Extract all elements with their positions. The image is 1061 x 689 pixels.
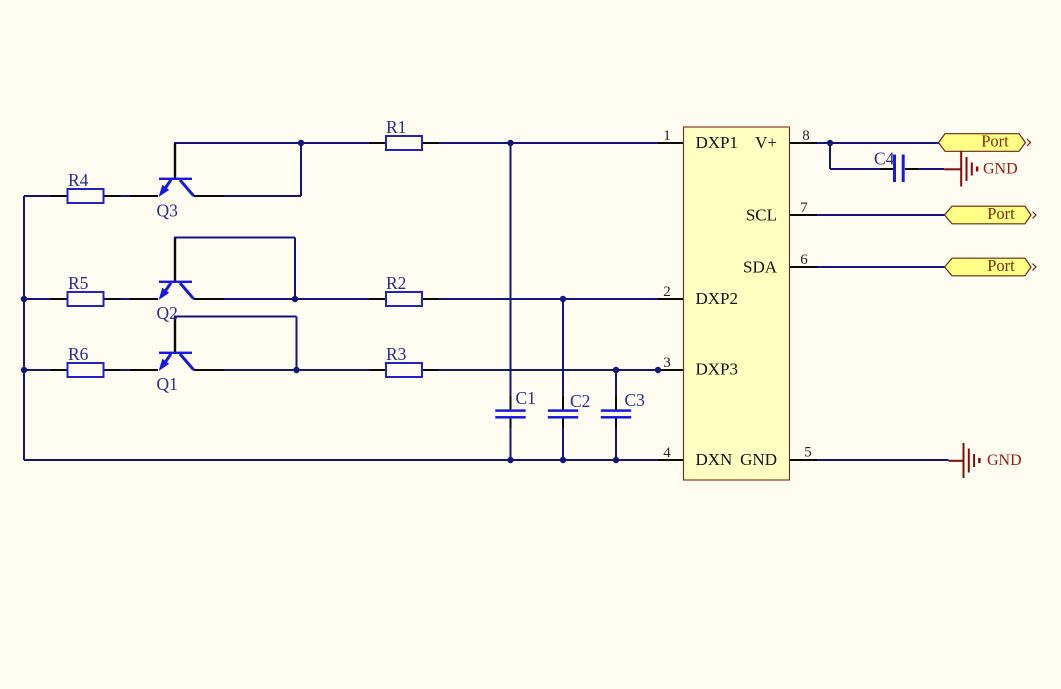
svg-text:R6: R6 — [68, 344, 89, 364]
svg-text:C2: C2 — [570, 391, 590, 411]
svg-text:Port: Port — [981, 132, 1009, 151]
svg-text:Port: Port — [987, 204, 1015, 223]
svg-text:GND: GND — [983, 161, 1018, 178]
svg-text:C3: C3 — [625, 390, 646, 410]
svg-text:DXP1: DXP1 — [696, 133, 739, 152]
svg-text:SCL: SCL — [746, 206, 777, 225]
svg-text:R5: R5 — [68, 273, 89, 293]
svg-text:7: 7 — [800, 200, 808, 216]
svg-text:Q2: Q2 — [157, 303, 178, 323]
svg-text:Q1: Q1 — [157, 374, 178, 394]
svg-text:C4: C4 — [874, 149, 895, 169]
svg-text:GND: GND — [740, 450, 777, 469]
svg-text:DXP3: DXP3 — [696, 360, 739, 379]
svg-text:3: 3 — [663, 355, 671, 371]
svg-text:R2: R2 — [386, 273, 406, 293]
svg-text:DXP2: DXP2 — [696, 289, 739, 308]
svg-text:SDA: SDA — [743, 258, 778, 277]
svg-text:8: 8 — [802, 128, 810, 144]
svg-text:Port: Port — [987, 256, 1015, 275]
svg-text:6: 6 — [800, 252, 808, 268]
svg-text:GND: GND — [987, 452, 1022, 469]
svg-text:C1: C1 — [516, 388, 536, 408]
svg-text:Q3: Q3 — [157, 201, 179, 221]
svg-text:4: 4 — [663, 445, 671, 461]
svg-text:R3: R3 — [386, 344, 407, 364]
svg-text:V+: V+ — [755, 133, 777, 152]
svg-text:1: 1 — [663, 128, 671, 144]
svg-text:DXN: DXN — [696, 450, 733, 469]
svg-text:R4: R4 — [68, 170, 89, 190]
svg-text:5: 5 — [804, 445, 812, 461]
svg-text:2: 2 — [663, 284, 671, 300]
svg-text:R1: R1 — [386, 117, 406, 137]
